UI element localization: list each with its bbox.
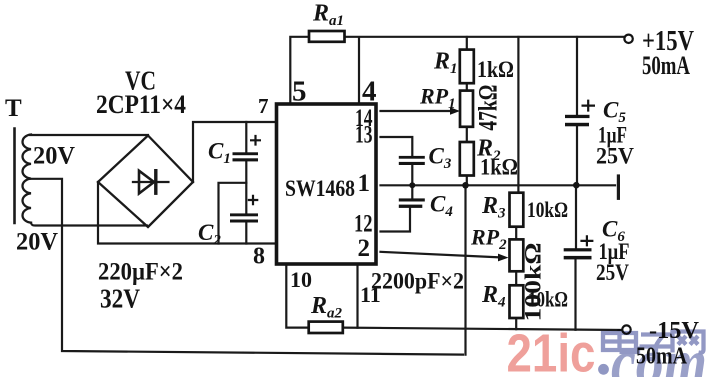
svg-text:SW1468: SW1468 — [285, 176, 355, 201]
svg-text:47kΩ: 47kΩ — [474, 85, 503, 131]
svg-text:2: 2 — [358, 235, 371, 262]
svg-text:25V: 25V — [596, 144, 634, 169]
svg-text:10: 10 — [290, 267, 312, 292]
svg-text:50mA: 50mA — [642, 51, 690, 80]
svg-text:220µF×2: 220µF×2 — [98, 259, 183, 286]
svg-text:7: 7 — [258, 94, 269, 118]
svg-text:2200pF×2: 2200pF×2 — [371, 269, 464, 294]
svg-text:13: 13 — [355, 121, 373, 148]
svg-text:21ic: 21ic — [507, 324, 596, 377]
svg-text:2CP11×4: 2CP11×4 — [96, 90, 186, 119]
svg-text:20V: 20V — [33, 143, 75, 170]
svg-text:20V: 20V — [16, 229, 58, 256]
svg-text:4: 4 — [362, 76, 377, 108]
svg-text:1: 1 — [358, 170, 371, 197]
svg-text:5: 5 — [292, 76, 307, 108]
svg-text:100kΩ: 100kΩ — [521, 243, 546, 322]
svg-text:10kΩ: 10kΩ — [527, 197, 568, 222]
svg-text:8: 8 — [253, 244, 265, 270]
svg-text:32V: 32V — [100, 284, 140, 314]
svg-text:12: 12 — [354, 211, 373, 238]
svg-text:T: T — [5, 95, 22, 122]
svg-text:1kΩ: 1kΩ — [477, 57, 514, 82]
svg-text:25V: 25V — [596, 260, 629, 285]
